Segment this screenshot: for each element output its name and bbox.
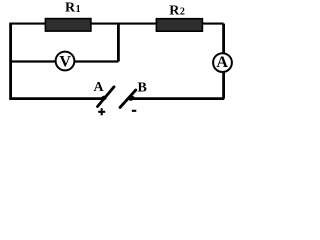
svg-text:V: V (59, 54, 71, 71)
svg-text:R: R (65, 1, 76, 16)
svg-text:R: R (169, 3, 180, 18)
svg-text:A: A (94, 80, 105, 95)
svg-text:A: A (216, 54, 228, 71)
svg-text:2: 2 (180, 7, 185, 18)
svg-text:B: B (138, 81, 147, 96)
svg-text:1: 1 (76, 4, 81, 15)
